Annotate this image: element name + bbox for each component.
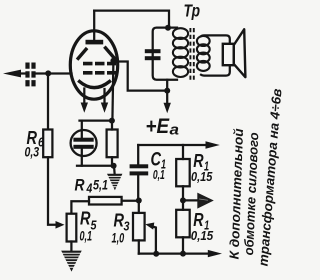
label R5 0,1 (80, 208, 98, 244)
tube cathode arc (80, 82, 110, 88)
capacitor bottom lead (81, 149, 83, 166)
label C1 0,1 (151, 150, 167, 183)
label R3 1,0 (112, 210, 131, 246)
resistor R6 body (43, 130, 52, 158)
resistor R1 upper body (176, 159, 190, 186)
bottom rail with arrow (139, 250, 222, 257)
node: R1/R1 mid tap (180, 197, 186, 203)
svg-text:R: R (193, 210, 203, 230)
wire: junction up to primary bottom (166, 80, 168, 91)
svg-text:а: а (170, 123, 180, 139)
secondary loop to speaker (201, 35, 230, 75)
anode lead up from tube (93, 11, 95, 40)
svg-text:0,1: 0,1 (153, 167, 165, 182)
R1 lower bottom lead (182, 237, 184, 253)
tube screen grid (dashed) (83, 62, 116, 66)
wire: cathode lead down inside/outside envelope to RC (112, 61, 113, 121)
electrolytic bypass capacitor (circle) lead (81, 121, 83, 138)
+Ea arrow down (164, 91, 171, 114)
transformer primary loop with capacitor (153, 28, 177, 80)
node B (C1/R4/R3) (136, 198, 142, 204)
svg-text:Тр: Тр (184, 1, 201, 21)
node: +Ea junction (164, 88, 170, 94)
primary shunt capacitor plates (145, 49, 161, 53)
node: anode / primary top (165, 25, 171, 31)
transformer secondary winding (197, 36, 210, 71)
electrolytic bypass capacitor circle (71, 130, 97, 156)
wire: screen to +Ea rail (113, 62, 167, 91)
input connector (two dashed contact bars) (28, 63, 34, 87)
lead to ground (113, 166, 116, 174)
svg-text:1,0: 1,0 (112, 230, 125, 246)
wire: junction down to R6 (47, 74, 49, 130)
feedback top rail with arrow (138, 141, 220, 148)
tube control grid (dashed) (83, 71, 116, 75)
svg-text:R: R (80, 208, 91, 229)
node: wiper on bottom rail (153, 251, 159, 257)
wire: R4 to node B (122, 200, 139, 202)
transformer core (dashed) (190, 28, 193, 81)
svg-text:R: R (75, 176, 86, 195)
wire: rail down to C1 (137, 145, 139, 164)
cathode resistor bottom lead (111, 157, 113, 166)
svg-text:R: R (193, 151, 203, 171)
label R4 5,1 (75, 176, 109, 196)
svg-text:0,15: 0,15 (191, 229, 214, 243)
input arrow (to previous stage) (3, 70, 25, 78)
node: grid / R6 junction (45, 70, 51, 76)
ground (cathode RC) (107, 174, 122, 191)
tube beam plates (slanted dashes) (78, 49, 86, 58)
wire: connector to grid of tube (36, 72, 72, 74)
tube envelope (70, 31, 117, 99)
wire: C1 to node B (137, 175, 139, 200)
R1 upper top lead (182, 145, 184, 159)
speaker driver (223, 44, 234, 65)
speaker horn (234, 29, 246, 77)
wire: RC bottom run (77, 165, 114, 167)
node: cathode RC top (109, 118, 115, 124)
resistor R3 body (133, 213, 145, 241)
svg-text:0,3: 0,3 (25, 145, 40, 160)
note: to additional winding of power transformer (rotated) (227, 88, 285, 267)
tube cathode/screen exit node on right of envelope (110, 58, 116, 64)
wire: node B to R3 (138, 201, 140, 213)
wire: R3 bottom to rail (138, 240, 140, 253)
wire: RC top run (80, 119, 112, 121)
cathode resistor body (107, 130, 118, 158)
resistor R5 body (67, 214, 77, 242)
node: RC ground (111, 163, 117, 169)
svg-text:5,1: 5,1 (93, 178, 108, 193)
ground (R5) (61, 251, 81, 272)
wire: R5 to ground (70, 242, 72, 251)
R1 lower top lead (182, 200, 184, 209)
label +Ea (146, 114, 180, 139)
resistor R1 lower body (176, 210, 190, 238)
capacitor C1 plates (130, 164, 149, 168)
tube heater lead right with down arrow (101, 89, 108, 113)
svg-text:4: 4 (86, 182, 93, 196)
tube heater lead left with down arrow (81, 89, 88, 113)
wire: R6 down then right to R5 wiper arrow (48, 157, 57, 225)
cathode resistor top lead (111, 121, 113, 130)
svg-text:3: 3 (124, 219, 131, 234)
wire: R5 top to R4 (71, 201, 89, 214)
svg-text:0,1: 0,1 (80, 228, 93, 244)
capacitor plates (73, 138, 93, 142)
wire: anode to transformer primary (top run) (94, 11, 169, 28)
wiper arrowhead into R5 (56, 221, 65, 229)
mid tap arrow right (183, 193, 214, 209)
resistor R4 body (horizontal) (89, 197, 122, 205)
transformer primary winding (173, 28, 188, 77)
label R6 0,3 (25, 127, 45, 160)
tube anode bar (86, 40, 104, 45)
R1 upper bottom lead (182, 186, 184, 200)
label R1 0,15 (upper) (191, 151, 213, 184)
label R1 0,15 (lower) (191, 210, 214, 243)
svg-text:+E: +E (146, 114, 170, 138)
R3 wiper arrow and tie-down (145, 223, 156, 254)
node: R1 lower on rail (180, 251, 186, 257)
svg-text:0,15: 0,15 (191, 170, 213, 184)
